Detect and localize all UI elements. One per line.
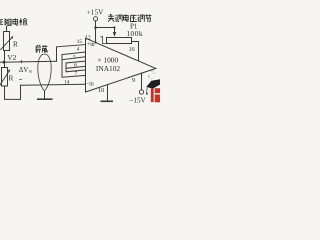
svg-text:6: 6 — [74, 62, 77, 68]
svg-text:100k: 100k — [126, 29, 143, 38]
svg-text:x=: x= — [151, 77, 155, 81]
svg-text:9: 9 — [132, 77, 135, 84]
svg-text:5: 5 — [73, 55, 76, 61]
svg-text:R: R — [13, 41, 18, 49]
svg-text:−in: −in — [86, 82, 94, 88]
svg-text:R: R — [9, 74, 14, 82]
svg-text:10: 10 — [98, 87, 104, 94]
svg-text:7: 7 — [75, 71, 78, 77]
svg-text:14: 14 — [64, 79, 70, 85]
svg-text:V2: V2 — [7, 53, 16, 62]
svg-text:INA102: INA102 — [96, 64, 121, 73]
svg-text:+in: +in — [87, 42, 95, 48]
svg-text:4: 4 — [77, 46, 80, 52]
svg-text:16: 16 — [129, 47, 135, 53]
svg-text:15: 15 — [77, 39, 83, 45]
svg-text:12: 12 — [85, 36, 91, 42]
svg-text:−15V: −15V — [129, 97, 146, 105]
svg-text:ΔV: ΔV — [19, 66, 29, 74]
svg-text:+15V: +15V — [87, 8, 104, 17]
